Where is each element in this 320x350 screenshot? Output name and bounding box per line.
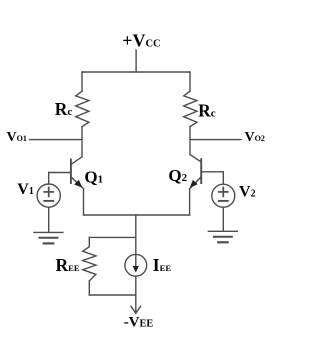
svg-text:IEE: IEE — [153, 255, 172, 275]
svg-text:Rc: Rc — [198, 101, 216, 121]
svg-text:Rc: Rc — [55, 99, 73, 119]
svg-text:REE: REE — [56, 255, 80, 275]
svg-text:-VEE: -VEE — [124, 315, 154, 331]
svg-text:+VCC: +VCC — [122, 31, 160, 51]
svg-text:Q1: Q1 — [84, 168, 103, 187]
svg-text:V2: V2 — [239, 183, 256, 200]
svg-text:Q2: Q2 — [168, 166, 187, 185]
svg-text:VO1: VO1 — [7, 130, 27, 145]
svg-text:V1: V1 — [17, 181, 34, 198]
svg-text:VO2: VO2 — [245, 130, 265, 145]
